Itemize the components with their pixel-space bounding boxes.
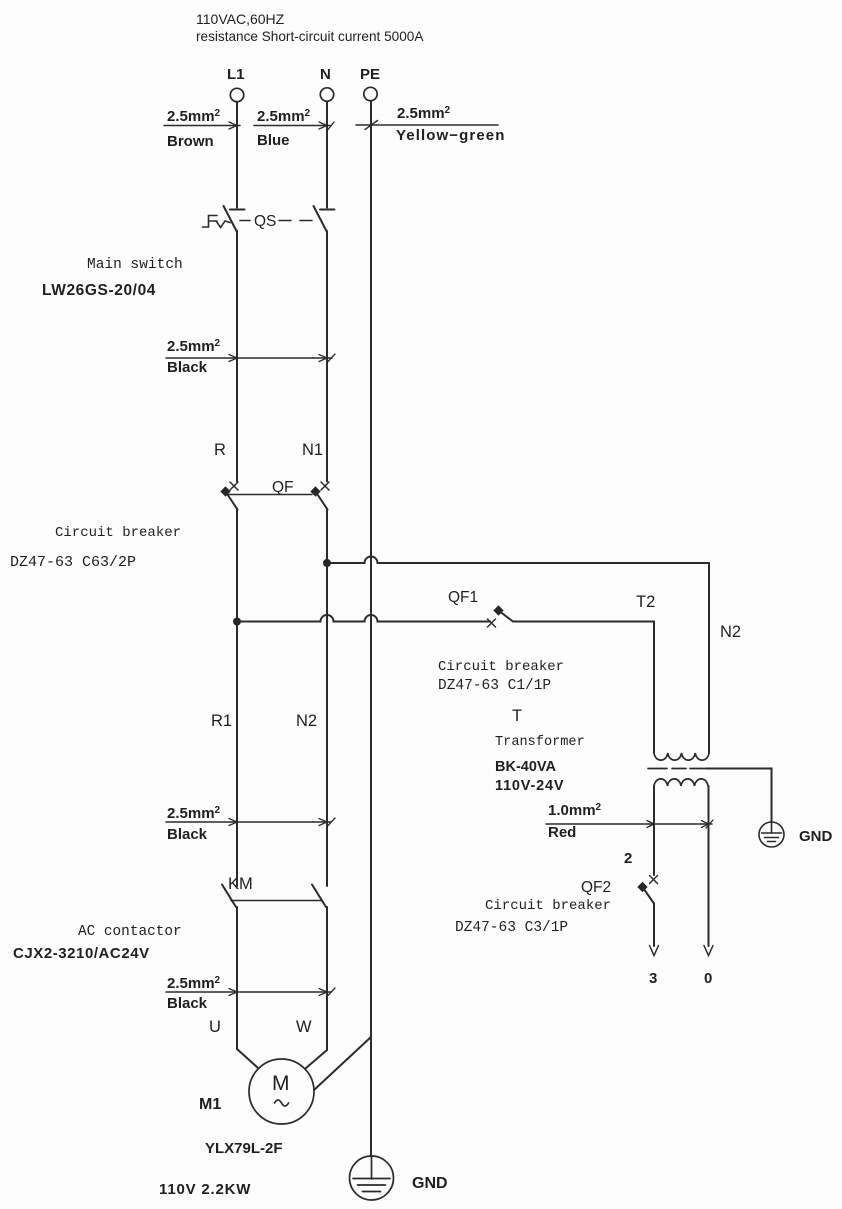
svg-text:GND: GND xyxy=(799,828,833,845)
svg-text:0: 0 xyxy=(704,970,712,987)
circuit breaker QF1 xyxy=(488,619,496,627)
label 2.5mm2 Black leader 2 xyxy=(166,821,331,823)
transformer T labels xyxy=(495,707,585,794)
Main switch label xyxy=(42,257,183,299)
svg-text:N2: N2 xyxy=(720,623,741,641)
arrow terminal 0 xyxy=(704,946,713,956)
svg-text:Brown: Brown xyxy=(167,133,214,150)
svg-text:YLX79L-2F: YLX79L-2F xyxy=(205,1140,283,1157)
svg-text:R: R xyxy=(214,441,226,459)
svg-text:Black: Black xyxy=(167,359,208,376)
svg-text:Yellow−green: Yellow−green xyxy=(396,127,506,144)
svg-text:Blue: Blue xyxy=(257,132,290,149)
svg-text:Black: Black xyxy=(167,995,208,1012)
svg-text:R1: R1 xyxy=(211,712,232,730)
wire secondary left leg xyxy=(653,786,655,875)
node R label xyxy=(214,441,226,459)
label 2.5mm2 Black leader 3 xyxy=(166,991,331,993)
svg-text:N: N xyxy=(320,66,331,83)
svg-text:T2: T2 xyxy=(636,593,655,611)
svg-text:L1: L1 xyxy=(227,66,245,83)
main switch QS pole 2 xyxy=(320,209,335,211)
svg-text:110V 2.2KW: 110V 2.2KW xyxy=(159,1181,251,1198)
svg-text:N2: N2 xyxy=(296,712,317,730)
node N1 label xyxy=(302,441,323,459)
svg-text:N1: N1 xyxy=(302,441,323,459)
wire N2 right vertical xyxy=(708,563,710,753)
svg-text:Main switch: Main switch xyxy=(87,257,183,273)
svg-text:CJX2-3210/AC24V: CJX2-3210/AC24V xyxy=(13,945,150,962)
junction dot R at 621.5 xyxy=(233,618,241,626)
KM label xyxy=(228,875,253,893)
node W label xyxy=(296,1018,312,1036)
transformer T primary winding xyxy=(654,753,709,760)
svg-text:PE: PE xyxy=(360,66,380,83)
Circuit breaker QF1 text xyxy=(438,659,564,694)
motor M1 circle xyxy=(249,1059,314,1124)
node N2 label left xyxy=(296,712,317,730)
svg-text:2.5mm2: 2.5mm2 xyxy=(167,975,221,992)
motor tilde xyxy=(275,1100,289,1106)
QS handle xyxy=(203,216,218,228)
circuit breaker QF2 xyxy=(650,876,658,884)
motor M1 leads xyxy=(237,1049,258,1068)
svg-text:Circuit breaker: Circuit breaker xyxy=(438,659,564,675)
AC contactor KM pole 2 xyxy=(312,885,326,908)
QS mechanical dashed link xyxy=(240,220,312,222)
svg-text:2: 2 xyxy=(624,850,632,867)
svg-text:QF1: QF1 xyxy=(448,589,478,606)
label 2.5mm2 Blue leader xyxy=(254,125,331,127)
AC contactor KM pole 1 xyxy=(222,885,236,908)
Circuit breaker QF text xyxy=(10,525,181,571)
QF link bar xyxy=(229,494,312,496)
svg-text:M1: M1 xyxy=(199,1096,221,1113)
svg-text:LW26GS-20/04: LW26GS-20/04 xyxy=(42,282,156,299)
wire R horizontal to QF1 xyxy=(237,615,490,622)
main switch QS pole 1 xyxy=(230,209,245,211)
wire secondary right leg xyxy=(708,786,710,946)
terminal PE xyxy=(364,87,377,100)
node T2 label xyxy=(636,593,655,611)
terminal L1 xyxy=(230,88,243,101)
wire PE vertical xyxy=(370,101,372,1156)
circuit breaker QF pole 1 xyxy=(230,482,238,490)
svg-text:110VAC,60HZ: 110VAC,60HZ xyxy=(196,11,285,27)
QS label xyxy=(254,213,276,230)
wire L1 mid xyxy=(236,231,238,482)
svg-text:2.5mm2: 2.5mm2 xyxy=(167,805,221,822)
wire N top xyxy=(326,102,328,208)
wire L1 top xyxy=(236,102,238,208)
wire R (L1 lower) xyxy=(236,509,238,886)
wire to GND from core xyxy=(706,769,772,823)
ground GND bottom symbol xyxy=(350,1156,394,1200)
arrow terminal 3 xyxy=(650,946,659,956)
label 2.5mm2 Brown leader xyxy=(164,125,240,127)
wire U lower / wire W lower xyxy=(236,907,238,1049)
title text xyxy=(196,11,424,44)
svg-text:Red: Red xyxy=(548,824,576,841)
svg-text:M: M xyxy=(272,1072,290,1095)
svg-text:DZ47-63 C3/1P: DZ47-63 C3/1P xyxy=(455,920,568,936)
ground GND top symbol xyxy=(759,822,784,847)
svg-text:Black: Black xyxy=(167,826,208,843)
motor M1 label xyxy=(159,1096,283,1198)
svg-text:Circuit breaker: Circuit breaker xyxy=(485,898,611,914)
svg-text:Circuit breaker: Circuit breaker xyxy=(55,525,181,541)
svg-text:KM: KM xyxy=(228,875,253,893)
svg-text:W: W xyxy=(296,1018,312,1036)
label 1.0mm2 Red leader xyxy=(546,823,712,825)
circuit breaker QF pole 2 xyxy=(321,482,329,490)
wire N1/N2 (N lower) xyxy=(326,509,328,563)
svg-text:GND: GND xyxy=(412,1175,448,1192)
wire QF2 lower xyxy=(653,903,655,946)
junction dot N at 563 xyxy=(323,559,331,567)
motor M1 earth lead to PE xyxy=(314,1037,371,1090)
label 2.5mm2 Yellow-green leader xyxy=(356,124,498,126)
terminal N xyxy=(320,88,333,101)
svg-text:2.5mm2: 2.5mm2 xyxy=(167,338,221,355)
wire N mid xyxy=(326,231,328,482)
svg-text:2.5mm2: 2.5mm2 xyxy=(257,108,311,125)
svg-text:T: T xyxy=(512,707,522,725)
node N2 label right xyxy=(720,623,741,641)
svg-text:110V-24V: 110V-24V xyxy=(495,778,564,794)
node 2 label xyxy=(624,850,632,867)
wire N2 horizontal to right xyxy=(327,557,709,564)
svg-text:DZ47-63 C63/2P: DZ47-63 C63/2P xyxy=(10,554,136,571)
Circuit breaker QF2 text xyxy=(455,898,611,936)
label 2.5mm2 Black leader 1 xyxy=(166,357,332,359)
node R1 label xyxy=(211,712,232,730)
wire T2 horizontal xyxy=(513,621,654,623)
transformer T secondary winding xyxy=(654,779,708,786)
svg-text:U: U xyxy=(209,1018,221,1036)
QF label xyxy=(272,479,294,496)
svg-text:1.0mm2: 1.0mm2 xyxy=(548,802,602,819)
svg-text:BK-40VA: BK-40VA xyxy=(495,759,556,775)
svg-text:AC contactor: AC contactor xyxy=(78,924,182,940)
svg-text:QF2: QF2 xyxy=(581,879,611,896)
svg-text:2.5mm2: 2.5mm2 xyxy=(397,105,451,122)
svg-text:Transformer: Transformer xyxy=(495,735,585,750)
svg-text:QF: QF xyxy=(272,479,294,496)
svg-text:3: 3 xyxy=(649,970,657,987)
AC contactor text xyxy=(13,924,182,962)
wire T2 vertical xyxy=(653,622,655,754)
transformer core dashed xyxy=(648,768,705,770)
node U label xyxy=(209,1018,221,1036)
svg-text:QS: QS xyxy=(254,213,276,230)
svg-text:DZ47-63 C1/1P: DZ47-63 C1/1P xyxy=(438,678,551,694)
svg-text:resistance Short-circuit curre: resistance Short-circuit current 5000A xyxy=(196,29,424,44)
KM link bar xyxy=(231,900,321,902)
svg-text:2.5mm2: 2.5mm2 xyxy=(167,108,221,125)
